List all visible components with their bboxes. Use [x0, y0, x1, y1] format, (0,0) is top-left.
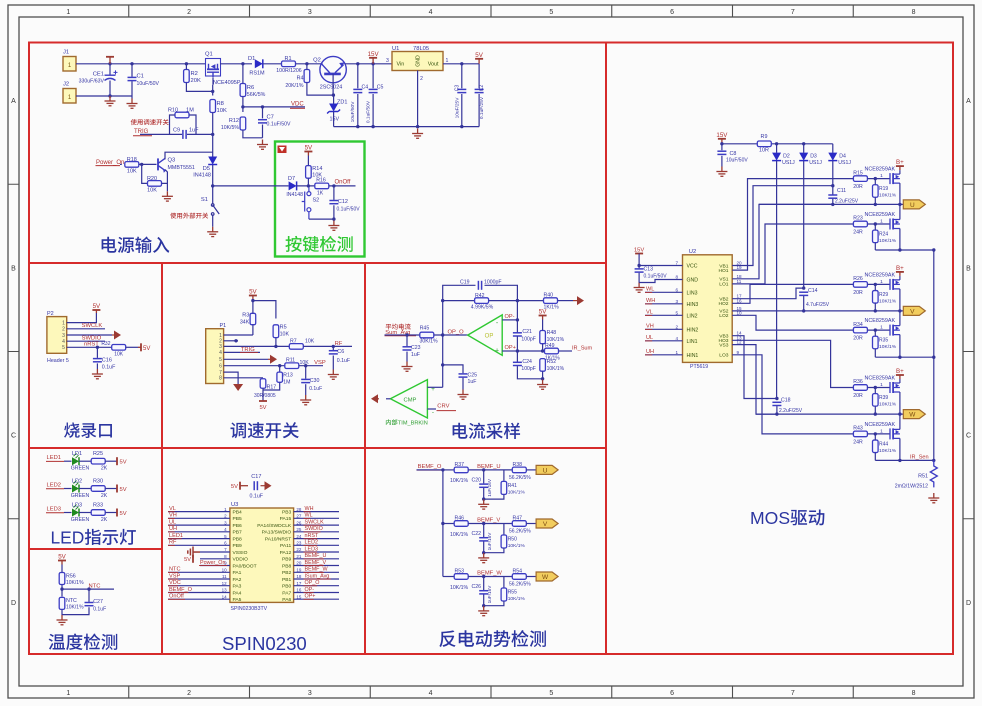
ground C13 [634, 283, 645, 293]
junction [441, 299, 444, 302]
junction [516, 318, 519, 321]
wire R19 bottom [874, 197, 876, 204]
svg-text:PA11: PA11 [280, 543, 292, 549]
wire Q2L drain [899, 311, 901, 326]
svg-text:3: 3 [675, 299, 678, 304]
wire U1 out [443, 63, 479, 65]
svg-text:C11: C11 [837, 188, 846, 194]
power 5V temp [58, 561, 66, 565]
wire 5V to R3/R5 [253, 300, 276, 319]
svg-text:UH: UH [646, 349, 654, 355]
svg-text:C3: C3 [454, 85, 460, 92]
svg-text:10K/1%: 10K/1% [450, 532, 469, 538]
wire R14 top [307, 156, 309, 166]
wire CMP out [386, 398, 390, 400]
resistor R17 [260, 379, 266, 389]
wire U3 right pin 20 [294, 565, 339, 567]
svg-text:C17: C17 [251, 474, 261, 480]
wire R54 to tag [526, 576, 536, 578]
MOSFET NCE8259AK Q2H [890, 279, 900, 290]
wire C13 bottom [638, 273, 640, 283]
svg-text:NCE4095P: NCE4095P [213, 80, 241, 86]
svg-text:10K/5%: 10K/5% [221, 125, 240, 131]
wire Q2 emitter rail [345, 63, 392, 65]
svg-text:20R: 20R [853, 336, 863, 342]
wire Q1L drain [899, 204, 901, 219]
svg-text:LIN1: LIN1 [687, 339, 698, 345]
title 按键检测 [285, 236, 352, 252]
wire ZD1 top [333, 95, 335, 103]
wire R2 top [185, 64, 187, 70]
wire 15V rail [722, 143, 833, 145]
svg-text:GREEN: GREEN [71, 517, 90, 523]
svg-text:LED2: LED2 [47, 483, 62, 489]
wire P2 pin5 nRST [67, 346, 112, 348]
svg-text:C23: C23 [411, 345, 421, 351]
svg-text:BEMF_U: BEMF_U [477, 464, 501, 470]
svg-text:Power_On: Power_On [200, 560, 225, 566]
junction [874, 328, 877, 331]
junction [775, 412, 778, 415]
svg-text:VL: VL [646, 310, 653, 316]
svg-text:10K: 10K [217, 108, 227, 114]
junction [482, 468, 485, 471]
wire C22 bottom [483, 542, 485, 553]
net LO3 [732, 355, 854, 434]
svg-text:5: 5 [549, 9, 553, 16]
U2 pin names and numbers [675, 261, 742, 359]
junction [332, 345, 335, 348]
resistor R19 [873, 185, 879, 198]
junction [441, 522, 444, 525]
wire C6 top [332, 346, 334, 350]
svg-text:1M: 1M [283, 379, 290, 385]
wire C19 loop [443, 285, 476, 300]
svg-text:CE1: CE1 [93, 72, 104, 78]
svg-text:UL: UL [646, 335, 653, 341]
ground BEMF_U [478, 499, 489, 509]
wire D4 top [832, 144, 834, 153]
resistor R2 [184, 70, 190, 83]
svg-text:7: 7 [675, 261, 678, 266]
resistor R46 [454, 521, 468, 527]
net port U [903, 200, 925, 209]
svg-text:0.1uF/50V: 0.1uF/50V [337, 207, 361, 213]
svg-text:US1J: US1J [782, 160, 795, 166]
svg-text:GND: GND [416, 55, 422, 67]
svg-text:15V: 15V [368, 51, 380, 58]
svg-text:2: 2 [62, 327, 65, 333]
title 调速开关 [230, 422, 298, 438]
capacitor C17 [254, 481, 257, 490]
junction [898, 412, 901, 415]
power 5V button [304, 152, 312, 156]
junction [802, 142, 805, 145]
net VS2 [732, 310, 804, 312]
diode D3 [799, 153, 808, 161]
svg-text:C25: C25 [468, 372, 478, 378]
wire Q3 collector [165, 152, 213, 159]
wire 15V to VCC [639, 254, 682, 266]
svg-text:10K/1%: 10K/1% [879, 344, 897, 350]
MOSFET NCE8259AK Q2L [890, 325, 900, 336]
capacitor C2 [475, 89, 484, 92]
svg-text:6: 6 [670, 690, 674, 697]
wire C21 link [516, 320, 518, 333]
svg-text:1uF/16V: 1uF/16V [487, 585, 492, 604]
svg-text:1uF: 1uF [468, 379, 477, 385]
capacitor C23 [403, 347, 412, 350]
wire R16 right [329, 185, 356, 187]
wire P2 pin3 [67, 334, 112, 336]
svg-text:10K/1%: 10K/1% [879, 298, 897, 304]
wire C20 bottom [483, 488, 485, 499]
wire U3 left pin 12 [168, 585, 230, 587]
svg-text:R5: R5 [280, 325, 287, 331]
svg-text:UH: UH [169, 526, 177, 532]
wire R19 top [874, 179, 876, 185]
svg-text:5V: 5V [305, 145, 313, 152]
svg-text:VSSIO: VSSIO [233, 550, 248, 556]
svg-text:A: A [11, 98, 16, 105]
svg-text:2: 2 [420, 76, 423, 82]
junction [874, 222, 877, 225]
wire C6 bottom [332, 356, 334, 370]
wire U3 left pin 13 [168, 592, 230, 594]
svg-text:BEMF_O: BEMF_O [418, 464, 442, 470]
svg-text:PB3: PB3 [282, 510, 292, 516]
resistor R48 [540, 331, 546, 344]
svg-text:10K: 10K [305, 338, 315, 344]
svg-text:R39: R39 [879, 395, 888, 401]
wire R47 to tag [526, 523, 536, 525]
capacitor C25 [459, 374, 468, 377]
wire R48 bottom [542, 344, 544, 351]
svg-text:Q1: Q1 [205, 52, 213, 58]
wire C22 cap [483, 524, 485, 538]
resistor R55 [501, 588, 507, 601]
wire C4 col [357, 64, 359, 89]
power 5V LED1 [116, 457, 118, 465]
svg-text:VCC: VCC [687, 264, 698, 270]
svg-text:R49: R49 [545, 343, 555, 349]
green box button detect [275, 142, 365, 257]
svg-text:IN4148: IN4148 [286, 192, 303, 198]
junction [332, 217, 335, 220]
wire BEMF_U row [443, 469, 454, 471]
wire to R40 [517, 300, 543, 302]
svg-text:R2: R2 [191, 71, 198, 77]
svg-text:NCE8259AK: NCE8259AK [865, 422, 896, 428]
diode D5 [208, 157, 217, 165]
net VS3 [732, 345, 777, 415]
wire U3 right pin 23 [294, 544, 339, 546]
wire C2 bottom [478, 94, 480, 127]
svg-text:56.2K/5%: 56.2K/5% [509, 529, 531, 535]
wire R12 bottom [243, 130, 263, 138]
svg-text:R24: R24 [879, 232, 888, 238]
svg-text:D4: D4 [839, 154, 846, 160]
svg-text:NTC: NTC [66, 598, 77, 604]
resistor R10 [175, 112, 189, 118]
svg-text:P1: P1 [220, 323, 227, 329]
wire R17 bottom [262, 388, 264, 401]
MOSFET NCE8259AK Q3L [890, 428, 900, 439]
svg-text:J2: J2 [63, 82, 69, 88]
transistor Q2 [320, 56, 346, 82]
svg-text:BEMF_U: BEMF_U [305, 553, 327, 559]
wire R13 top [279, 366, 281, 372]
MOSFET NCE8259AK Q3H [890, 382, 900, 393]
wire U3 left pin 9 [200, 565, 230, 567]
svg-text:2SC9024: 2SC9024 [320, 85, 342, 91]
svg-text:10K/1%: 10K/1% [508, 543, 526, 549]
svg-text:15V: 15V [330, 117, 340, 123]
svg-text:1: 1 [66, 9, 70, 16]
svg-text:6: 6 [670, 9, 674, 16]
svg-text:10K: 10K [114, 352, 124, 358]
junction [371, 125, 374, 128]
junction [874, 309, 877, 312]
svg-text:-: - [432, 409, 434, 416]
ground BEMF_V [478, 553, 489, 563]
power arrow P1 pin5 [268, 355, 277, 364]
junction [416, 125, 419, 128]
MOSFET NCE8259AK Q1L [890, 219, 900, 230]
svg-text:PA0/BOOT: PA0/BOOT [233, 563, 257, 569]
ground C8 [716, 167, 727, 177]
svg-text:VL: VL [169, 506, 176, 512]
svg-text:R23: R23 [853, 216, 863, 222]
power B+ Q1H [896, 166, 904, 170]
junction [802, 309, 805, 312]
junction [108, 62, 111, 65]
svg-text:5: 5 [62, 345, 65, 351]
svg-text:A: A [966, 98, 971, 105]
svg-text:BEMF_W: BEMF_W [477, 571, 502, 577]
junction [234, 339, 237, 342]
svg-text:UL: UL [169, 519, 176, 525]
wire Q3 emitter [165, 170, 167, 184]
wire D5 to node [212, 165, 214, 202]
wire R45 to OP [434, 334, 468, 336]
svg-text:R50: R50 [508, 537, 517, 543]
svg-text:R3: R3 [242, 313, 249, 319]
ground U1 rail [412, 129, 423, 139]
wire R44 bottom [874, 453, 876, 461]
rail W low source [875, 459, 934, 461]
capacitor C4 [353, 89, 362, 92]
title 温度检测 [49, 633, 118, 649]
svg-text:R1: R1 [284, 56, 291, 62]
wire C13 top [638, 266, 640, 269]
svg-text:2mΩ/1W/2512: 2mΩ/1W/2512 [895, 484, 928, 490]
wire R7 to RF [303, 345, 352, 347]
svg-text:R37: R37 [455, 462, 465, 468]
junction [441, 468, 444, 471]
power 5V LED2 [116, 485, 118, 493]
svg-text:2: 2 [675, 324, 678, 329]
svg-text:PA14/SWDCLK: PA14/SWDCLK [257, 523, 292, 529]
net VS1 [732, 204, 833, 278]
title 电流采样 [453, 423, 520, 439]
svg-text:R54: R54 [513, 569, 523, 575]
wire U3 left pin 4 [168, 531, 230, 533]
svg-text:WH: WH [646, 298, 655, 304]
wire U2 VH [645, 328, 683, 330]
ground R51 [928, 493, 939, 503]
capacitor C1 [128, 77, 137, 80]
wire top rail J1 to Q1 [76, 63, 206, 65]
resistor R49 [545, 348, 559, 354]
svg-text:R10: R10 [168, 108, 178, 114]
green note 内部TIM_BRKIN [386, 419, 391, 425]
wire C12 top [333, 186, 335, 200]
wire R49 right [559, 350, 573, 352]
wire D3 top [803, 144, 805, 153]
wire R14 bottom [307, 178, 309, 186]
net HO2 [732, 284, 853, 303]
svg-text:6: 6 [219, 364, 222, 370]
svg-text:MOS: MOS [750, 508, 790, 528]
svg-text:15V: 15V [716, 132, 728, 139]
svg-text:R16: R16 [316, 178, 326, 184]
svg-text:C12: C12 [338, 199, 348, 205]
ground Q3 emitter [162, 191, 173, 201]
wire C27 bottom [62, 607, 89, 614]
resistor R39 [873, 394, 879, 407]
section box SPIN0230 [162, 448, 365, 654]
svg-text:24R: 24R [853, 439, 863, 445]
junction [541, 377, 544, 380]
svg-text:GREEN: GREEN [71, 466, 90, 472]
wire drain Q2H [899, 276, 901, 280]
wire U3 right pin 28 [294, 511, 339, 513]
power 5V R32 [138, 343, 141, 351]
svg-text:U2: U2 [689, 249, 696, 255]
wire R8 to TRIG node [212, 113, 214, 158]
wire Q3L drain [899, 414, 901, 429]
svg-text:C5: C5 [377, 85, 384, 91]
wire R33 to 5V [105, 512, 117, 514]
svg-text:PB4: PB4 [233, 510, 243, 516]
svg-text:C: C [966, 433, 971, 440]
svg-text:R7: R7 [290, 338, 297, 344]
wire U3 right pin 19 [294, 571, 339, 573]
wire LED3 [64, 512, 72, 514]
svg-text:LO1: LO1 [719, 282, 729, 288]
wire U3 left pin 14 [168, 598, 230, 600]
wire U2 WL [645, 291, 683, 293]
svg-text:US1J: US1J [838, 160, 851, 166]
net VB2 [732, 288, 804, 299]
svg-text:LED: LED [51, 528, 85, 548]
wire U3 left pin 8 [200, 558, 230, 560]
svg-text:1: 1 [880, 382, 883, 388]
svg-text:S2: S2 [313, 198, 320, 204]
power B+ Q2H [896, 272, 904, 276]
svg-text:TRIG: TRIG [241, 347, 255, 353]
svg-text:5V: 5V [184, 557, 191, 563]
U3 pin names and numbers [222, 507, 302, 603]
svg-text:D5: D5 [203, 166, 210, 172]
resistor R11 [285, 363, 299, 369]
wire TRIG row [140, 133, 182, 135]
svg-text:5V: 5V [120, 460, 127, 466]
svg-text:TIM_BRKIN: TIM_BRKIN [398, 421, 428, 427]
svg-text:PA1: PA1 [233, 570, 242, 576]
svg-text:LIN2: LIN2 [687, 313, 698, 319]
junction [898, 459, 901, 462]
svg-text:LED1: LED1 [47, 455, 62, 461]
svg-text:VDC: VDC [291, 101, 304, 107]
svg-text:VS3: VS3 [719, 342, 729, 348]
junction [332, 184, 335, 187]
svg-text:R9: R9 [761, 134, 768, 140]
svg-text:R34: R34 [853, 322, 863, 328]
wire source Q2L [899, 335, 901, 358]
title MOS驱动 [750, 508, 824, 528]
svg-text:11: 11 [737, 279, 742, 284]
junction [305, 62, 308, 65]
svg-text:5V: 5V [231, 484, 238, 490]
junction [405, 333, 408, 336]
svg-text:R4: R4 [297, 76, 304, 82]
junction [211, 133, 214, 136]
wire OPO down [442, 335, 444, 387]
svg-text:10K: 10K [280, 332, 290, 338]
wire U3 left pin 7 [200, 551, 230, 553]
resistor R29 [873, 291, 879, 304]
svg-text:LD2: LD2 [72, 478, 82, 484]
svg-text:7: 7 [791, 9, 795, 16]
svg-text:HO2: HO2 [718, 301, 728, 307]
svg-text:D3: D3 [810, 154, 817, 160]
capacitor C13 [635, 269, 644, 272]
svg-text:SWCLK: SWCLK [305, 519, 325, 525]
svg-text:nRST: nRST [305, 533, 319, 539]
resistor R20 [148, 181, 162, 187]
svg-text:IN4148: IN4148 [193, 173, 211, 179]
svg-text:R44: R44 [879, 441, 888, 447]
svg-text:56.2K/5%: 56.2K/5% [509, 582, 531, 588]
svg-text:R8: R8 [217, 101, 224, 107]
zener ZD1 [327, 104, 340, 114]
junction [775, 142, 778, 145]
wire ZD1 bottom [333, 112, 335, 127]
svg-text:1uF: 1uF [411, 352, 420, 358]
wire C27 top [88, 589, 90, 602]
svg-text:0.1uF: 0.1uF [102, 364, 116, 370]
wire R24 top [874, 224, 876, 230]
wire R44 top [874, 434, 876, 440]
wire R30 to 5V [105, 488, 117, 490]
transistor Q1 PMOS [206, 59, 221, 78]
svg-text:VDC: VDC [169, 580, 181, 586]
svg-text:OP-: OP- [505, 314, 515, 320]
net port V [903, 306, 925, 315]
resistor R45 [420, 332, 434, 338]
resistor R24 [873, 230, 879, 243]
svg-text:CMP: CMP [404, 397, 417, 403]
resistor R42 [475, 298, 489, 304]
wire U2 VL [645, 314, 683, 316]
svg-text:RF: RF [169, 540, 177, 546]
svg-text:Header 5: Header 5 [47, 358, 69, 364]
svg-text:OnOff: OnOff [335, 180, 351, 186]
svg-text:PB9: PB9 [233, 543, 243, 549]
junction [898, 309, 901, 312]
